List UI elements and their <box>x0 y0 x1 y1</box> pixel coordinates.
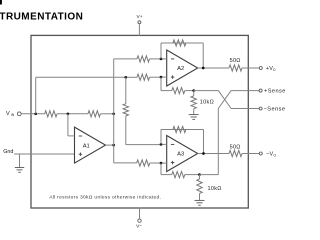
svg-text:IN: IN <box>11 113 15 117</box>
svg-text:A2: A2 <box>177 66 184 72</box>
svg-text:50Ω: 50Ω <box>230 144 241 150</box>
svg-text:10kΩ: 10kΩ <box>208 186 222 192</box>
svg-text:−V: −V <box>266 151 273 157</box>
svg-text:All resistors 30kΩ unless othe: All resistors 30kΩ unless otherwise indi… <box>49 195 161 201</box>
svg-text:10kΩ: 10kΩ <box>200 100 214 106</box>
svg-text:A1: A1 <box>83 143 90 149</box>
svg-text:V+: V+ <box>137 14 143 20</box>
svg-text:+Sense: +Sense <box>264 88 286 94</box>
svg-text:−Sense: −Sense <box>264 106 286 112</box>
svg-text:V: V <box>6 111 10 117</box>
svg-text:50Ω: 50Ω <box>230 58 241 64</box>
svg-text:O: O <box>273 153 276 157</box>
svg-text:O: O <box>273 68 276 72</box>
svg-text:V−: V− <box>136 224 142 230</box>
svg-text:TRUMENTATION: TRUMENTATION <box>0 12 83 23</box>
svg-text:Gnd: Gnd <box>3 149 13 155</box>
svg-text:A3: A3 <box>177 152 184 158</box>
